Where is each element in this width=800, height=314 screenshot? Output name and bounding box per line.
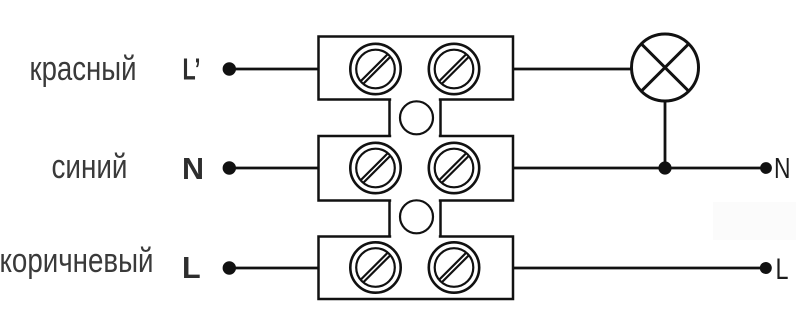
terminal block row 1 body	[319, 37, 514, 100]
screw terminal row 2 left	[350, 143, 400, 193]
wire L' from terminal to block row 1	[229, 68, 318, 71]
node L terminal dot (left)	[223, 261, 236, 274]
wire from block row 2 to N terminal (right)	[513, 167, 766, 170]
svg-text:коричневый: коричневый	[0, 242, 154, 280]
bridge between row 1 and row 2	[390, 97, 441, 139]
wire from lamp down to N junction	[664, 101, 667, 168]
node N terminal dot (right)	[760, 162, 772, 174]
screw terminal row 3 right	[429, 242, 479, 292]
screw terminal row 3 left	[350, 242, 400, 292]
faint background smudge (bottom right)	[713, 202, 796, 240]
wire L from terminal to block row 3	[229, 267, 318, 270]
wire from block row 1 to lamp	[513, 68, 632, 71]
node L terminal dot (right)	[760, 262, 772, 274]
svg-text:L’: L’	[183, 53, 201, 87]
svg-text:L: L	[776, 253, 789, 286]
wire from block row 3 to L terminal (right)	[513, 267, 766, 270]
wire N from terminal to block row 2	[229, 167, 318, 170]
screw terminal row 1 left	[350, 44, 400, 94]
svg-text:красный: красный	[30, 50, 137, 88]
lamp E1	[632, 34, 699, 101]
terminal block row 3 body	[319, 237, 514, 300]
mounting hole between row 2 and row 3	[400, 200, 433, 233]
mounting hole between row 1 and row 2	[400, 101, 433, 134]
junction dot at lamp/N connection	[658, 161, 671, 174]
svg-text:N: N	[182, 152, 204, 186]
svg-text:синий: синий	[52, 148, 128, 186]
node L' terminal dot	[223, 62, 236, 75]
screw terminal row 1 right	[429, 44, 479, 94]
screw terminal row 2 right	[429, 143, 479, 193]
terminal block row 2 body	[319, 136, 514, 201]
svg-text:L: L	[182, 251, 201, 285]
svg-text:N: N	[774, 153, 791, 185]
node N terminal dot (left)	[223, 161, 236, 174]
bridge between row 2 and row 3	[390, 198, 441, 239]
